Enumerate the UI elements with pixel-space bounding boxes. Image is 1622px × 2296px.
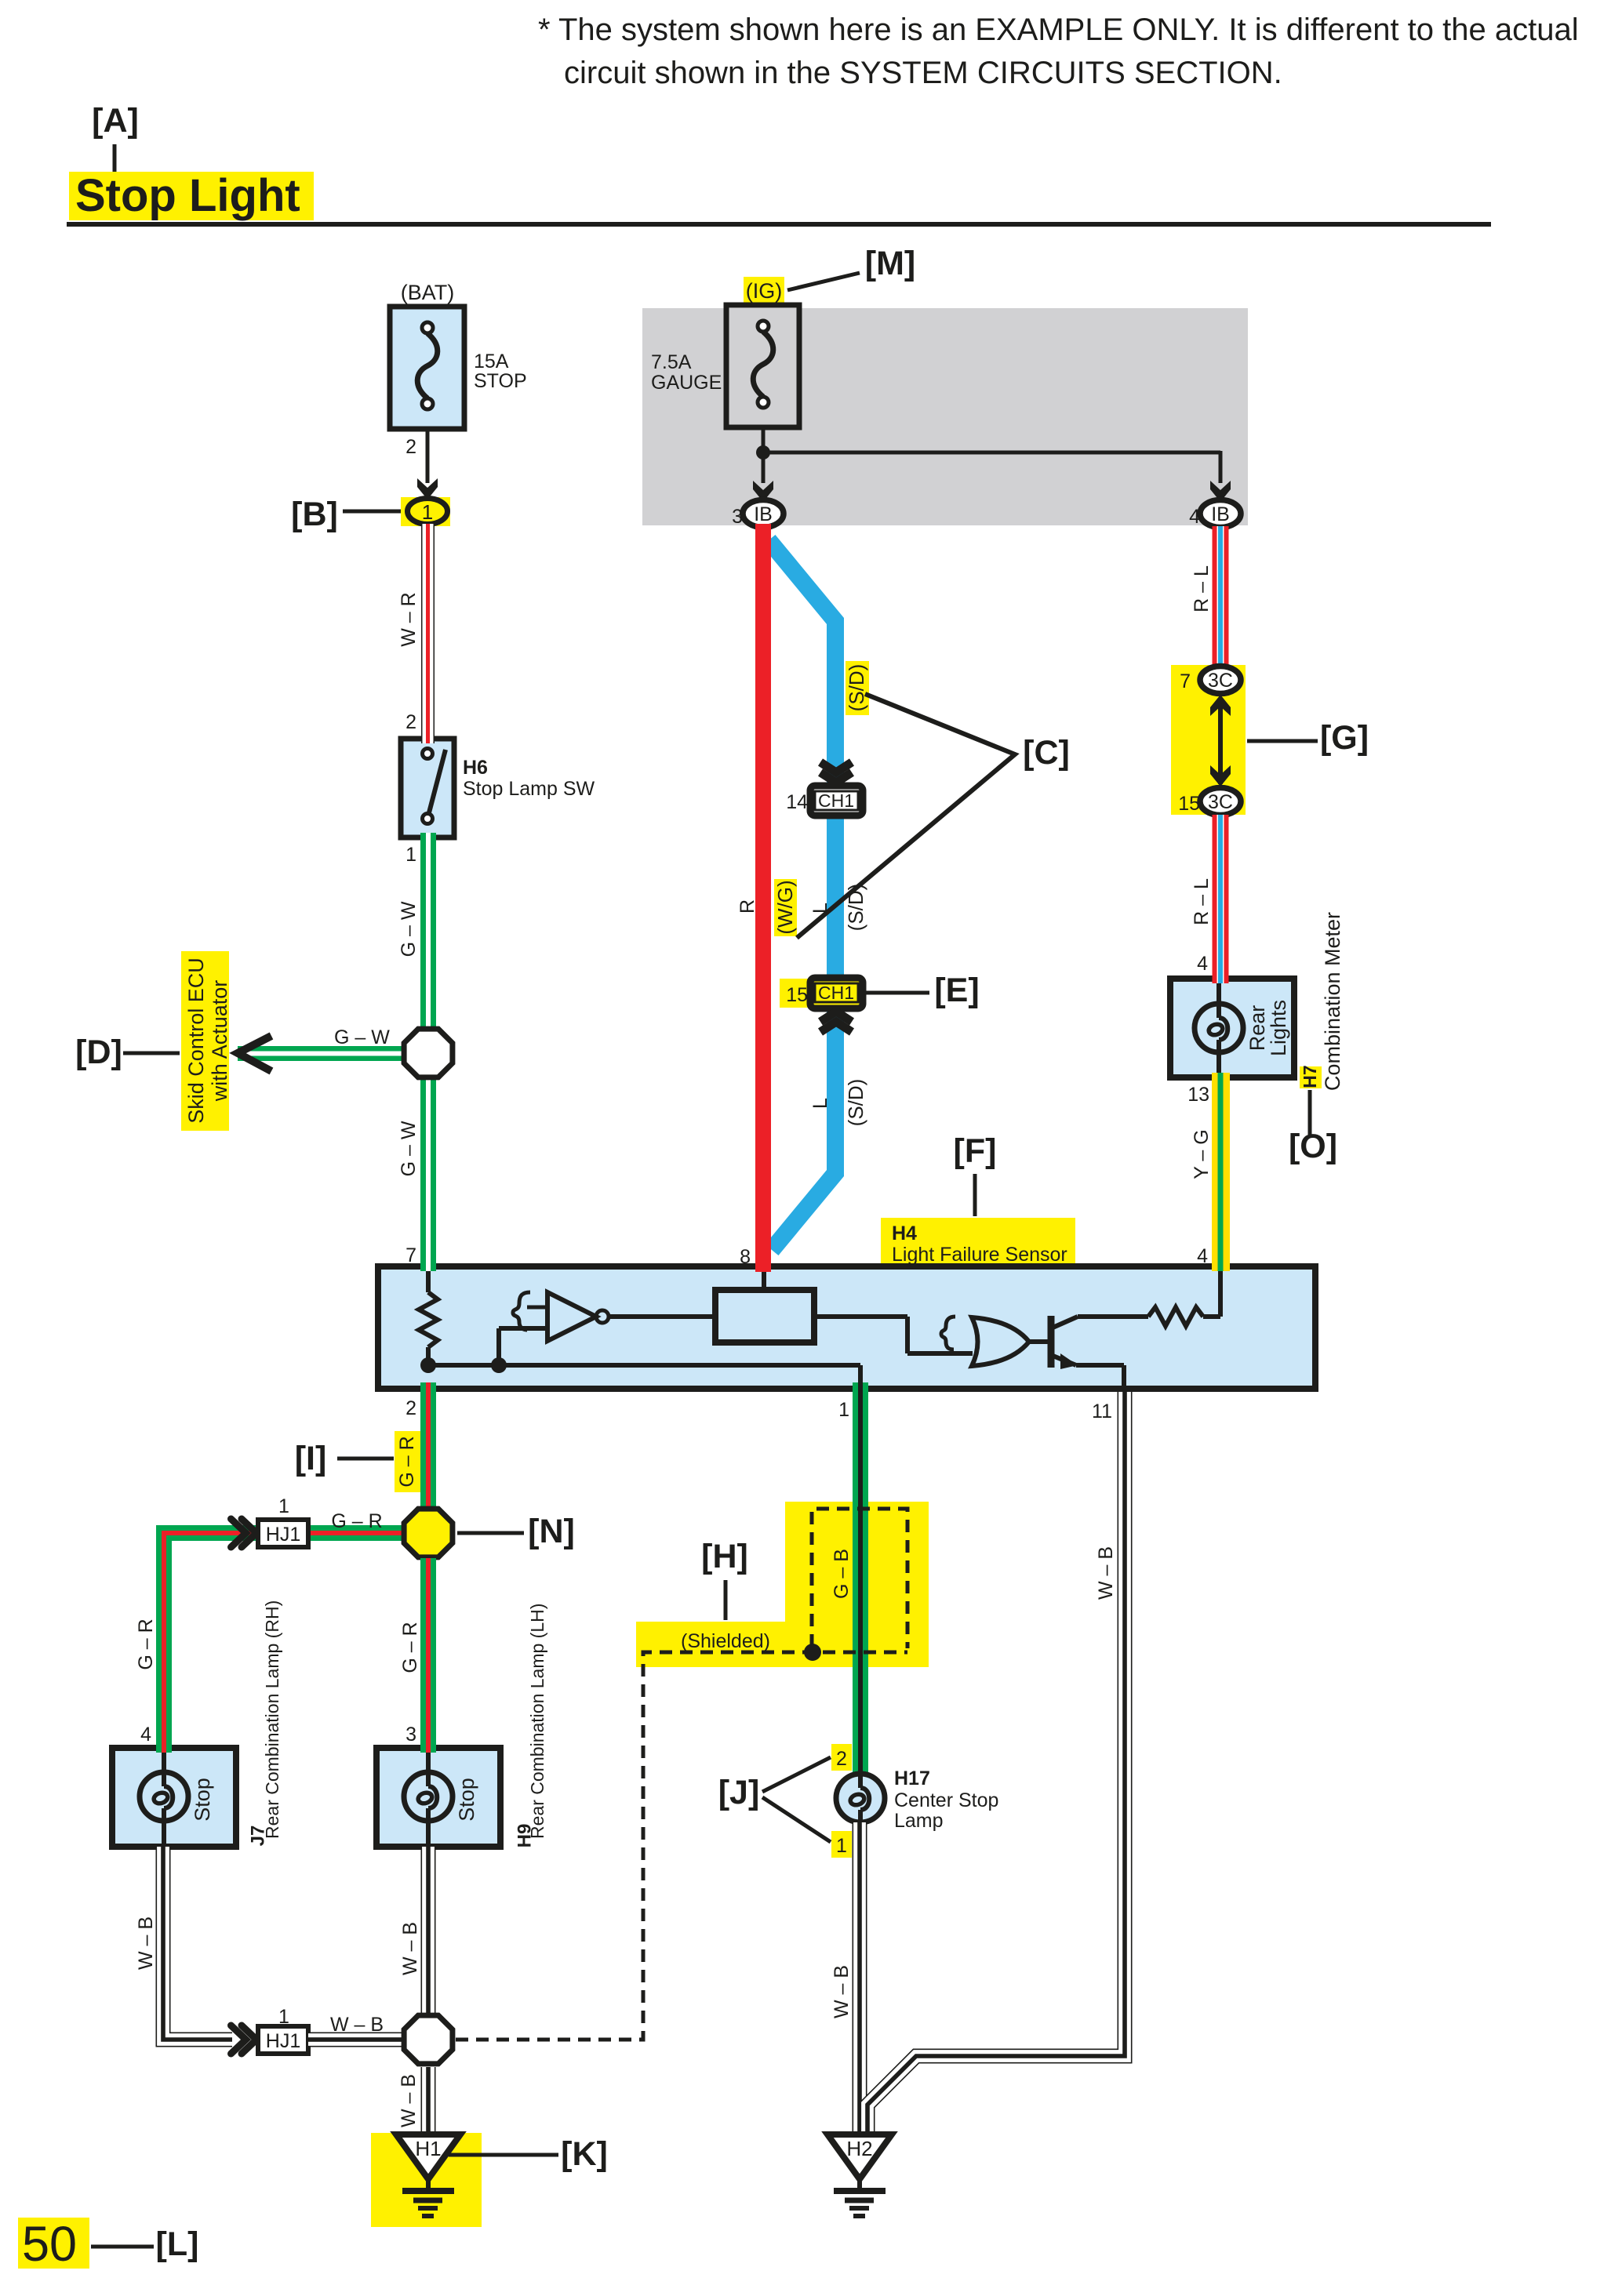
page number highlight <box>18 2218 89 2269</box>
label [I] <box>295 1440 327 1477</box>
wire Y-G <box>1212 1077 1230 1266</box>
svg-text:[E]: [E] <box>934 972 979 1009</box>
label (W/G) highlight <box>774 879 797 936</box>
wire W-R crossing H6 edge <box>421 734 435 743</box>
svg-text:L: L <box>809 1098 831 1109</box>
wire R red <box>755 524 771 1267</box>
label G-R vertical upper <box>396 1436 418 1487</box>
svg-text:W – B: W – B <box>831 1965 853 2018</box>
connector IB pin 3 <box>743 500 784 528</box>
pin 2 of H17 <box>836 1748 847 1770</box>
shield dashed line <box>456 1652 907 2040</box>
svg-text:(S/D): (S/D) <box>844 1079 867 1127</box>
svg-text:Y – G: Y – G <box>1191 1129 1213 1179</box>
svg-text:G – R: G – R <box>135 1618 157 1669</box>
connector ellipse 1 <box>408 499 448 525</box>
label (Shielded) <box>681 1630 770 1652</box>
svg-text:14: 14 <box>786 791 808 813</box>
label L upper <box>809 903 831 914</box>
label G-R horizontal <box>331 1510 382 1532</box>
pin 15 at CH1 <box>786 984 808 1006</box>
wire R-L lower <box>1213 815 1229 979</box>
svg-text:(W/G): (W/G) <box>773 880 797 934</box>
leader line for [H] <box>724 1580 728 1620</box>
svg-text:G – R: G – R <box>399 1622 421 1673</box>
wire G-B crossing H4 edge <box>853 1382 868 1393</box>
svg-text:HJ1: HJ1 <box>266 2030 300 2052</box>
svg-text:W – B: W – B <box>1095 1546 1117 1600</box>
pin 1 of H4 <box>838 1399 849 1421</box>
wire W-R <box>421 524 435 739</box>
svg-text:H2: H2 <box>846 2137 872 2160</box>
arrow between 3C connectors <box>1210 695 1231 787</box>
svg-text:G – W: G – W <box>334 1026 390 1048</box>
page number 50 <box>22 2217 77 2272</box>
ground H1 highlight <box>371 2133 482 2227</box>
label G-W branch <box>334 1026 390 1048</box>
label Rear Lights <box>1246 1000 1290 1056</box>
leader line for [I] <box>337 1457 394 1461</box>
node octagon [N] <box>404 1509 453 1557</box>
svg-text:13: 13 <box>1187 1084 1209 1106</box>
label W-B left <box>135 1916 157 1970</box>
3C highlight box [G] <box>1171 665 1246 815</box>
wire G-W branch to ECU <box>238 1046 405 1061</box>
pin 3 at IB <box>732 506 743 528</box>
svg-text:Stop Light: Stop Light <box>75 170 300 221</box>
connector 1 highlight <box>401 497 450 526</box>
label Stop H9 <box>455 1778 478 1822</box>
wire G-R center <box>420 1558 436 1748</box>
svg-text:[D]: [D] <box>75 1034 122 1071</box>
pin 8 of H4 <box>740 1246 751 1268</box>
svg-text:4: 4 <box>1197 953 1208 975</box>
node junction octagon <box>404 1029 453 1077</box>
leader lines for [J] <box>762 1757 831 1842</box>
arrow into CH1-15 <box>820 1012 852 1032</box>
svg-text:15: 15 <box>786 984 808 1006</box>
label (BAT) <box>401 281 455 304</box>
connector 3C pin 7 <box>1200 667 1241 694</box>
svg-text:Light Failure Sensor: Light Failure Sensor <box>892 1244 1067 1266</box>
svg-text:Stop: Stop <box>455 1778 478 1822</box>
connector CH1 lower <box>810 978 863 1008</box>
leader lines for [C] <box>797 694 1015 938</box>
title highlight <box>69 172 314 220</box>
label H6 Stop Lamp SW <box>463 757 595 800</box>
pin 2 of H6 <box>405 711 416 733</box>
wire G-R upper <box>420 1389 436 1507</box>
svg-text:1: 1 <box>422 500 433 524</box>
skid control ECU highlight <box>181 951 229 1131</box>
wire Y-G crossing meter edges <box>1212 1073 1230 1082</box>
svg-text:[H]: [H] <box>701 1538 748 1575</box>
label W-R <box>398 592 420 646</box>
svg-text:IB: IB <box>1211 503 1230 525</box>
wire R crossing H4 edge <box>755 1262 771 1272</box>
combination meter box <box>1170 979 1294 1077</box>
svg-text:circuit shown in the SYSTEM CI: circuit shown in the SYSTEM CIRCUITS SEC… <box>564 56 1282 90</box>
svg-text:1: 1 <box>278 1495 289 1517</box>
wire G-B <box>853 1389 868 1775</box>
label G-B <box>831 1549 853 1599</box>
ground H1 <box>396 2134 460 2216</box>
svg-text:(IG): (IG) <box>746 279 783 303</box>
svg-text:R – L: R – L <box>1191 565 1213 612</box>
label [O] <box>1289 1128 1337 1165</box>
svg-text:Rear Combination Lamp (RH): Rear Combination Lamp (RH) <box>262 1600 282 1839</box>
svg-text:HJ1: HJ1 <box>266 1524 300 1546</box>
label [E] <box>934 972 979 1009</box>
leader line for [A] <box>113 144 117 177</box>
svg-text:7.5A: 7.5A <box>651 351 692 373</box>
lamp H9 bulb <box>404 1748 453 1847</box>
label G-R highlight <box>395 1431 420 1492</box>
leader line for [O] <box>1308 1090 1312 1135</box>
svg-text:H17: H17 <box>894 1767 930 1789</box>
pin 14 at CH1 <box>786 791 808 813</box>
svg-text:CH1: CH1 <box>818 790 854 811</box>
label L lower <box>809 1098 831 1109</box>
svg-text:15: 15 <box>1178 793 1200 815</box>
pin 1 at HJ1 lower <box>278 2006 289 2028</box>
label [F] <box>954 1132 997 1170</box>
label (W/G) <box>773 880 797 934</box>
leader line for [E] <box>864 991 929 995</box>
label Stop J7 <box>191 1778 214 1822</box>
connector CH1 upper <box>810 786 863 816</box>
leader line for [D] <box>123 1052 180 1055</box>
pin 1 at HJ1 upper <box>278 1495 289 1517</box>
lamp J7 bulb <box>140 1748 188 1847</box>
svg-text:STOP: STOP <box>474 370 527 392</box>
H4 internal bus <box>420 1328 860 1389</box>
pin 1 of H17 <box>836 1835 847 1857</box>
wire W-B from H4 pin 11 <box>867 1392 1125 2134</box>
ground H2 <box>827 2134 892 2216</box>
svg-text:3: 3 <box>405 1724 416 1746</box>
svg-text:[C]: [C] <box>1023 734 1070 772</box>
svg-text:3C: 3C <box>1208 791 1233 813</box>
svg-text:15A: 15A <box>474 351 509 372</box>
label (S/D) middle <box>844 884 867 932</box>
shield dashed box <box>812 1509 907 1648</box>
label (S/D) lower <box>844 1079 867 1127</box>
wire W-B node to H1 <box>421 2067 436 2134</box>
label [B] <box>291 496 338 533</box>
svg-text:Rear Combination Lamp (LH): Rear Combination Lamp (LH) <box>527 1604 547 1839</box>
svg-text:11: 11 <box>1092 1400 1112 1422</box>
pin 3 of H9 <box>405 1724 416 1746</box>
wire L blue <box>769 540 835 1250</box>
svg-text:(S/D): (S/D) <box>845 664 868 712</box>
svg-text:3C: 3C <box>1208 670 1233 692</box>
svg-text:Stop: Stop <box>191 1778 214 1822</box>
svg-text:Center Stop: Center Stop <box>894 1789 998 1811</box>
svg-text:G – B: G – B <box>831 1549 853 1599</box>
label R-L upper <box>1191 565 1213 612</box>
label W-B below H17 <box>831 1965 853 2018</box>
svg-text:Rear: Rear <box>1246 1005 1269 1052</box>
pin 15 highlight <box>780 979 810 1008</box>
svg-text:Skid Control ECU: Skid Control ECU <box>184 957 208 1124</box>
svg-text:* The system shown here is an: * The system shown here is an EXAMPLE ON… <box>538 13 1579 47</box>
svg-text:W – R: W – R <box>398 592 420 646</box>
label (IG) highlight <box>744 277 784 303</box>
pin 7 of H4 <box>405 1244 416 1266</box>
wire G-W crossing H6 edge <box>420 833 436 842</box>
pin 11 of H4 <box>1092 1400 1112 1422</box>
label W-B above H1 <box>398 2074 420 2127</box>
H4 label highlight <box>881 1218 1075 1265</box>
switch H6 contacts <box>423 749 446 824</box>
wire W-B HJ1 to node <box>308 2033 403 2047</box>
label Combination Meter <box>1321 912 1344 1091</box>
label H7 highlight <box>1300 1066 1322 1088</box>
H4 or-gate <box>941 1317 1029 1366</box>
svg-text:[A]: [A] <box>92 102 139 140</box>
fuse 7.5A GAUGE value <box>651 351 722 394</box>
pin 4 of H4 <box>1197 1245 1208 1267</box>
svg-text:Lights: Lights <box>1267 1000 1290 1056</box>
pin 4 of combination meter <box>1197 953 1208 975</box>
label [D] <box>75 1034 122 1071</box>
connector IB pin 4 <box>1200 500 1241 528</box>
label [J] <box>718 1774 760 1811</box>
pin 4 at IB <box>1189 506 1200 528</box>
svg-text:7: 7 <box>1180 670 1191 692</box>
leader line for [L] <box>91 2245 154 2249</box>
H4 relay block <box>609 1270 973 1353</box>
label J7 <box>248 1826 269 1847</box>
title Stop Light <box>75 170 300 221</box>
label H17 Center Stop Lamp <box>894 1767 998 1832</box>
sensor H4 body <box>378 1266 1315 1389</box>
svg-text:with Actuator: with Actuator <box>208 980 231 1103</box>
label [L] <box>156 2225 199 2263</box>
svg-text:(Shielded): (Shielded) <box>681 1630 770 1652</box>
wire W-B from H9 <box>421 1847 436 2013</box>
label G-W upper <box>398 901 420 957</box>
svg-text:[B]: [B] <box>291 496 338 533</box>
svg-text:IB: IB <box>754 503 773 525</box>
arrow into CH1-14 <box>820 762 852 783</box>
label [G] <box>1320 719 1369 757</box>
svg-text:R: R <box>736 899 758 914</box>
connector HJ1 lower <box>231 2025 309 2054</box>
label H7 <box>1300 1065 1320 1088</box>
svg-text:CH1: CH1 <box>818 983 854 1003</box>
label [C] <box>1023 734 1070 772</box>
H4 resistor input <box>419 1270 438 1365</box>
label Skid Control ECU with Actuator <box>184 957 231 1124</box>
label [M] <box>865 245 915 282</box>
arrow to skid ECU <box>238 1036 271 1071</box>
svg-text:W – B: W – B <box>398 2074 420 2127</box>
lamp J7 body <box>112 1748 236 1847</box>
svg-text:W – B: W – B <box>399 1922 421 1975</box>
svg-text:GAUGE: GAUGE <box>651 372 722 394</box>
shield junction dot <box>804 1644 821 1661</box>
pin 4 of J7 <box>140 1724 151 1746</box>
header note text <box>538 13 1579 90</box>
label R-L lower <box>1191 878 1213 925</box>
svg-text:[L]: [L] <box>156 2225 199 2263</box>
fuse 15A STOP body <box>390 307 464 429</box>
node octagon ground join <box>404 2015 453 2064</box>
svg-text:[K]: [K] <box>561 2135 608 2173</box>
wire fuse to connector 1 <box>417 429 438 500</box>
lamp H17 bulb <box>836 1774 885 1822</box>
leader line for [G] <box>1247 739 1318 743</box>
label W-B horizontal <box>330 2014 384 2036</box>
svg-text:1: 1 <box>838 1399 849 1421</box>
label [H] <box>701 1538 748 1575</box>
wire G-W crossing H4 edge <box>420 1262 436 1271</box>
label Rear Combination Lamp LH <box>527 1604 547 1839</box>
label H9 <box>515 1824 536 1848</box>
shield highlight <box>636 1502 929 1667</box>
connector 3C pin 15 <box>1200 788 1241 816</box>
svg-text:4: 4 <box>140 1724 151 1746</box>
label (IG) <box>746 279 783 303</box>
label [K] <box>561 2135 608 2173</box>
H4 transistor <box>1027 1316 1124 1386</box>
label Rear Combination Lamp RH <box>262 1600 282 1839</box>
wire G-R crossing H4 edge <box>420 1382 436 1393</box>
svg-text:G – W: G – W <box>398 901 420 957</box>
svg-text:[O]: [O] <box>1289 1128 1337 1165</box>
fuse 15A STOP value <box>474 351 527 392</box>
pin 13 of combination meter <box>1187 1084 1209 1106</box>
svg-text:2: 2 <box>405 436 416 458</box>
wire gauge fuse to IB connectors <box>753 427 1231 502</box>
label W-B center <box>399 1922 421 1975</box>
gray bus box <box>642 308 1248 525</box>
wire G-R crossing H9 edge <box>420 1743 436 1753</box>
svg-text:2: 2 <box>405 711 416 733</box>
label H4 Light Failure Sensor <box>892 1222 1067 1266</box>
svg-text:G – R: G – R <box>396 1436 418 1487</box>
wire R-L crossing meter edge <box>1213 974 1229 983</box>
fuse 7.5A GAUGE body <box>726 305 799 427</box>
wire G-R crossing J7 edge <box>156 1743 172 1753</box>
wire G-W vertical <box>420 837 436 1266</box>
label (S/D) highlight <box>846 661 869 715</box>
svg-text:H7: H7 <box>1300 1065 1320 1088</box>
svg-text:1: 1 <box>836 1835 847 1857</box>
leader line for [B] <box>343 510 406 514</box>
H4 comparator <box>513 1292 609 1341</box>
pin 2 highlight of H17 <box>831 1744 852 1771</box>
pin 2 of H4 <box>405 1397 416 1419</box>
svg-text:50: 50 <box>22 2217 77 2272</box>
svg-text:[F]: [F] <box>954 1132 997 1170</box>
rear lights bulb <box>1195 979 1243 1077</box>
pin 1 of H6 <box>405 844 416 866</box>
svg-text:W – B: W – B <box>135 1916 157 1970</box>
svg-text:G – R: G – R <box>331 1510 382 1532</box>
svg-text:7: 7 <box>405 1244 416 1266</box>
svg-text:1: 1 <box>405 844 416 866</box>
svg-text:(BAT): (BAT) <box>401 281 455 304</box>
svg-text:Stop Lamp SW: Stop Lamp SW <box>463 778 595 800</box>
svg-text:Combination Meter: Combination Meter <box>1321 912 1344 1091</box>
wire G-R branch <box>164 1533 403 1751</box>
svg-text:[G]: [G] <box>1320 719 1369 757</box>
svg-text:[N]: [N] <box>528 1513 575 1550</box>
svg-text:G – W: G – W <box>398 1121 420 1176</box>
svg-text:2: 2 <box>836 1748 847 1770</box>
title underline <box>67 222 1491 227</box>
leader line for [F] <box>973 1174 977 1216</box>
leader line for [N] <box>457 1531 524 1535</box>
connector HJ1 upper <box>231 1519 309 1547</box>
wire Y-G crossing H4 edge <box>1212 1262 1230 1271</box>
pin 7 at 3C <box>1180 670 1191 692</box>
svg-text:R – L: R – L <box>1191 878 1213 925</box>
label (S/D) top <box>845 664 868 712</box>
pin 1 highlight of H17 <box>831 1831 852 1858</box>
H4 output resistor <box>1078 1270 1220 1326</box>
wire W-B from J7 <box>163 1847 232 2040</box>
lamp H9 body <box>376 1748 500 1847</box>
svg-text:[I]: [I] <box>295 1440 327 1477</box>
wire R-L upper <box>1213 526 1229 665</box>
label W-B right <box>1095 1546 1117 1600</box>
svg-text:[M]: [M] <box>865 245 915 282</box>
svg-text:H1: H1 <box>415 2137 441 2160</box>
label R <box>736 899 758 914</box>
label Y-G <box>1191 1129 1213 1179</box>
pin 15 at 3C <box>1178 793 1200 815</box>
svg-text:H4: H4 <box>892 1222 917 1244</box>
pin 2 of fuse <box>405 436 416 458</box>
svg-text:[J]: [J] <box>718 1774 760 1811</box>
label G-R left <box>135 1618 157 1669</box>
label [N] <box>528 1513 575 1550</box>
wire W-B from H17 <box>853 1822 867 2134</box>
svg-text:H6: H6 <box>463 757 488 779</box>
label G-W lower <box>398 1121 420 1176</box>
svg-text:Lamp: Lamp <box>894 1810 944 1832</box>
leader line for [M] <box>787 273 860 290</box>
switch H6 body <box>401 739 454 837</box>
svg-text:2: 2 <box>405 1397 416 1419</box>
label [A] <box>92 102 139 140</box>
leader line for [K] <box>449 2153 558 2157</box>
label G-R center <box>399 1622 421 1673</box>
